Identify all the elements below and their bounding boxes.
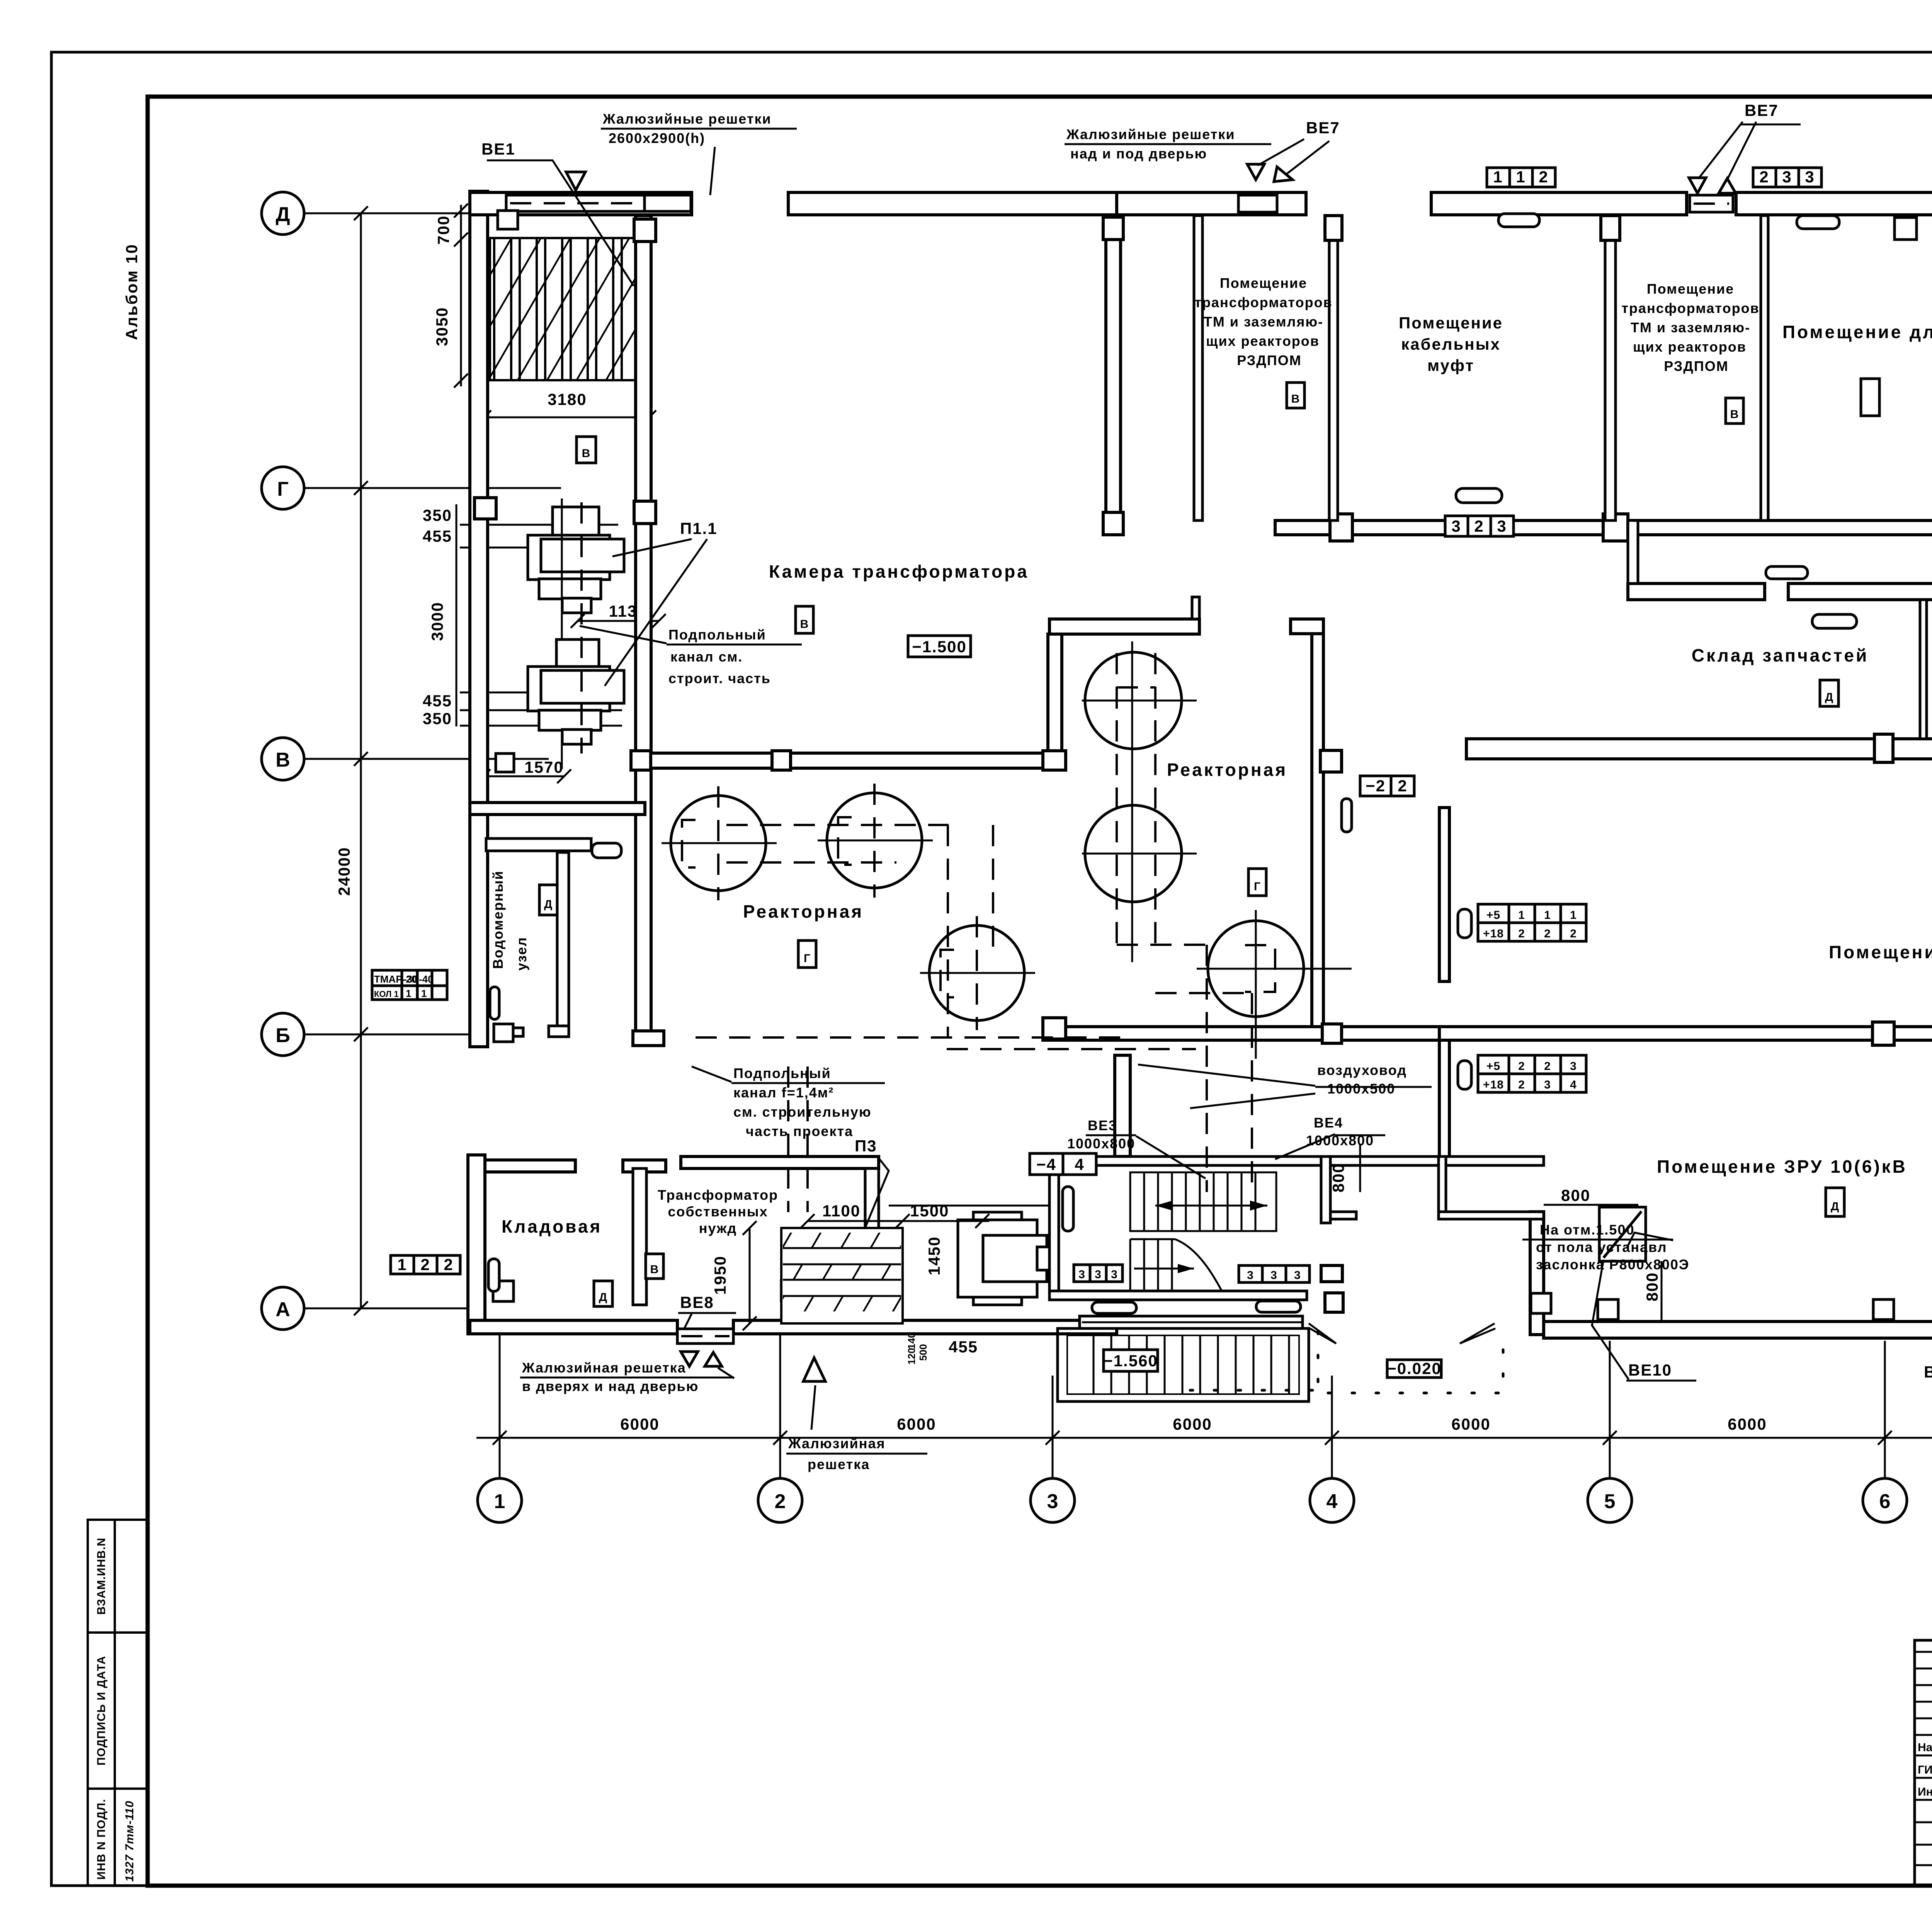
svg-text:ВЕ10: ВЕ10 [1628, 1361, 1672, 1379]
svg-text:140: 140 [906, 1332, 917, 1349]
door oval [1458, 1061, 1471, 1089]
stairwell top wall [1049, 1156, 1544, 1165]
svg-text:2: 2 [420, 1255, 430, 1274]
svg-text:1: 1 [421, 988, 427, 999]
axis circle 3 [1031, 1478, 1075, 1522]
Д box кладовая [594, 1281, 612, 1306]
room1 west wall [1194, 216, 1202, 520]
svg-text:В: В [276, 749, 290, 771]
axis circle В [262, 738, 304, 780]
stair inner wall [1321, 1156, 1330, 1223]
svg-text:от пола устанавл: от пола устанавл [1536, 1239, 1667, 1255]
svg-text:3: 3 [1805, 168, 1815, 186]
svg-text:2: 2 [1570, 927, 1577, 940]
svg-text:1: 1 [1516, 168, 1526, 186]
svg-text:6000: 6000 [1451, 1415, 1490, 1433]
level box -1.560 [1104, 1350, 1158, 1371]
svg-text:3: 3 [1270, 1269, 1277, 1282]
svg-text:+5: +5 [1486, 1060, 1500, 1073]
box 3 3 3 left [1074, 1265, 1122, 1282]
column block on corridor wall axis4 [1330, 514, 1352, 541]
BE1 nabla mark [566, 172, 585, 190]
oval under storeroom wall [1812, 614, 1857, 628]
stair hall bottom wall [1049, 1291, 1307, 1300]
Д box [1820, 680, 1838, 706]
BE1 leader [487, 160, 634, 286]
bottom wall of reactor rooms [1043, 1027, 1439, 1040]
svg-text:−0.020: −0.020 [1387, 1359, 1442, 1378]
reactor A1 [671, 796, 766, 891]
svg-text:2: 2 [1544, 1060, 1551, 1073]
svg-text:Б: Б [276, 1024, 290, 1047]
square mark axis5 [1598, 1299, 1618, 1320]
dim 3180 horizontal [484, 417, 649, 418]
north wall segment 2 [788, 192, 1117, 215]
svg-text:2: 2 [775, 1490, 786, 1513]
svg-text:3: 3 [1497, 517, 1507, 535]
column block inner wall bottom [1321, 1265, 1342, 1282]
ВЕ7 triangles #2 [1689, 178, 1706, 193]
svg-text:заслонка Р800х800Э: заслонка Р800х800Э [1536, 1257, 1689, 1272]
partition склад|кладовая [1920, 600, 1927, 739]
chamber bottom wall [1049, 619, 1199, 634]
svg-text:ВЕ3: ВЕ3 [1088, 1117, 1117, 1133]
stairwell left wall [1049, 1156, 1059, 1300]
axis stub line 2 [779, 1329, 781, 1478]
svg-text:2: 2 [1544, 927, 1551, 940]
svg-text:Камера трансформатора: Камера трансформатора [769, 561, 1029, 582]
svg-text:1100: 1100 [822, 1202, 861, 1220]
svg-text:Д: Д [544, 898, 553, 911]
door oval [1797, 216, 1839, 229]
svg-text:Инж.: Инж. [1918, 1786, 1932, 1798]
svg-text:3: 3 [1247, 1269, 1254, 1282]
svg-text:Г: Г [1254, 880, 1261, 893]
svg-text:Жалюзийная: Жалюзийная [788, 1435, 886, 1451]
кладовая north wall [485, 1160, 575, 1172]
svg-text:−2: −2 [1366, 777, 1386, 795]
В box [646, 1254, 663, 1279]
svg-text:1450: 1450 [925, 1236, 943, 1275]
svg-text:В: В [1730, 408, 1739, 421]
svg-text:ИНВ N ПОДЛ.: ИНВ N ПОДЛ. [95, 1799, 108, 1880]
svg-text:В: В [582, 447, 591, 460]
lower ЗРУ west wall [1530, 1212, 1544, 1335]
svg-text:1500: 1500 [910, 1202, 949, 1220]
svg-text:3: 3 [1095, 1268, 1102, 1281]
door oval in stair west wall [1063, 1187, 1073, 1231]
door oval [1458, 909, 1471, 938]
svg-text:2: 2 [1474, 517, 1484, 535]
svg-text:строит. часть: строит. часть [668, 670, 771, 686]
svg-text:ВЕ8: ВЕ8 [680, 1293, 714, 1311]
axis circle 1 [478, 1478, 522, 1522]
водомерный узел east wall [557, 852, 569, 1036]
transformer собст нужд symbol [958, 1220, 1037, 1297]
north wall segment 4 [1431, 192, 1687, 215]
wall V1 east of chamber [1106, 216, 1121, 535]
column block W at Г [474, 498, 496, 519]
room number box 1 1 2 [1487, 168, 1555, 187]
svg-text:2: 2 [444, 1255, 453, 1274]
corridor lower wall [1628, 583, 1765, 600]
vestibule south wall [1439, 1212, 1544, 1219]
axis stub line 6 [1884, 1341, 1886, 1478]
column block axis6 [1872, 1022, 1894, 1045]
BE1 right cap [645, 195, 691, 211]
wall E2 between grille bay and chamber [636, 216, 651, 1036]
axis А line [304, 1308, 470, 1310]
svg-text:П1.1: П1.1 [680, 519, 718, 537]
svg-text:1: 1 [1570, 909, 1577, 922]
svg-text:+18: +18 [1483, 1078, 1504, 1091]
dim 1570 [483, 776, 564, 777]
svg-text:455: 455 [423, 527, 452, 545]
svg-text:1570: 1570 [524, 758, 563, 776]
ВЕ8 louvre [677, 1329, 733, 1344]
svg-text:-30: -30 [403, 973, 418, 985]
svg-text:кабельных: кабельных [1401, 335, 1501, 353]
svg-text:Помещение: Помещение [1399, 314, 1503, 332]
svg-text:Д: Д [276, 203, 290, 226]
svg-text:узел: узел [514, 937, 529, 971]
vertical dimension line 24000 [360, 213, 362, 1308]
svg-text:Кладовая: Кладовая [502, 1216, 602, 1236]
tick marks on bottom dim line [493, 1431, 507, 1445]
svg-text:2: 2 [1759, 168, 1769, 186]
svg-text:−1.560: −1.560 [1103, 1352, 1158, 1370]
door oval [1498, 214, 1539, 227]
svg-text:Г: Г [277, 478, 288, 500]
axis Г line [304, 487, 561, 489]
svg-text:Помещение ЗРУ 10(6)кВ: Помещение ЗРУ 10(6)кВ [1829, 942, 1932, 962]
table +5/+18 upper [1478, 904, 1586, 941]
В box [1287, 383, 1304, 408]
column block east wall bottom [1322, 1024, 1342, 1043]
east wall top hook [1291, 619, 1323, 634]
svg-text:+5: +5 [1486, 909, 1500, 922]
svg-text:3: 3 [1570, 1060, 1577, 1073]
axis circle Б [262, 1013, 304, 1056]
column block on В wall mid [772, 751, 791, 770]
big arrow to П3 [803, 1358, 825, 1381]
small stub above chamber bottom wall [1192, 597, 1199, 619]
svg-text:часть проекта: часть проекта [746, 1123, 853, 1139]
supply unit П1.1 lower [556, 639, 599, 668]
svg-text:РЗДПОМ: РЗДПОМ [1664, 358, 1729, 374]
svg-text:4: 4 [1570, 1078, 1577, 1091]
upper ЗРУ north wall [1466, 739, 1932, 759]
ТМАР table [372, 970, 447, 1000]
dashed bus lines left reactor room [726, 824, 949, 826]
door oval below hall right [1256, 1301, 1301, 1312]
axis circle 4 [1310, 1478, 1354, 1522]
svg-text:ПОДПИСЬ И ДАТА: ПОДПИСЬ И ДАТА [95, 1656, 108, 1765]
supply unit П1.1 upper [553, 507, 599, 536]
svg-text:в дверях и над дверью: в дверях и над дверью [522, 1378, 699, 1394]
ЗРУ west wall upper [1439, 808, 1449, 981]
stair inner wall hook [1330, 1212, 1356, 1219]
door oval near box1 [1456, 488, 1502, 503]
east wall foot [549, 1026, 569, 1037]
svg-text:Реакторная: Реакторная [743, 901, 864, 922]
svg-text:3180: 3180 [548, 390, 587, 408]
svg-text:ТМ и заземляю-: ТМ и заземляю- [1631, 320, 1750, 335]
table +5/+18 lower [1478, 1055, 1586, 1092]
column block on В wall west [631, 751, 651, 770]
svg-text:Жалюзийные решетки: Жалюзийные решетки [602, 111, 772, 127]
собст нужд east wall [865, 1168, 879, 1230]
louvre in wall near axis 3 [1238, 195, 1277, 212]
svg-text:В1: В1 [1924, 1363, 1932, 1381]
wall V2 [1048, 634, 1062, 768]
left rows [1915, 1651, 1932, 1653]
louvre BE1 [506, 195, 645, 211]
reactor C1 [1085, 652, 1182, 749]
svg-text:канал f=1,4м²: канал f=1,4м² [733, 1085, 834, 1100]
svg-text:КОЛ 1: КОЛ 1 [374, 989, 399, 999]
В box in bay [577, 437, 596, 463]
ВЕ7 triangles #1 [1247, 164, 1264, 180]
svg-text:воздуховод: воздуховод [1317, 1062, 1407, 1078]
svg-text:3: 3 [1294, 1269, 1301, 1282]
svg-text:Склад запчастей: Склад запчастей [1692, 645, 1869, 665]
svg-text:3: 3 [1782, 168, 1792, 186]
dim 700 vertical top-left [460, 205, 462, 386]
Д door box водомерный [539, 885, 557, 915]
svg-text:2: 2 [1518, 1078, 1525, 1091]
заслонка diagonal symbol [1599, 1207, 1646, 1261]
axis circle 2 [758, 1478, 802, 1522]
west exterior wall lower [468, 1155, 485, 1334]
axis circle Д [262, 192, 304, 235]
svg-text:350: 350 [423, 506, 452, 524]
svg-text:ВЗАМ.ИНВ.N: ВЗАМ.ИНВ.N [95, 1537, 108, 1615]
svg-text:щих реакторов: щих реакторов [1206, 333, 1320, 349]
door oval corridor [1766, 566, 1808, 579]
column block V1 bottom [1103, 512, 1123, 535]
unit centerline dashed [580, 502, 583, 753]
svg-text:Альбом 10: Альбом 10 [122, 243, 141, 340]
vertical rect symbol in ОВБ room [1861, 379, 1879, 416]
vestibule east wall upper [1439, 1040, 1449, 1160]
Г box left [798, 940, 816, 968]
small tap symbol [494, 1024, 513, 1042]
door oval below hall left [1092, 1302, 1136, 1313]
svg-text:Помещение: Помещение [1647, 281, 1734, 297]
Д box [1826, 1188, 1844, 1216]
axis Д line [304, 213, 506, 214]
svg-text:6: 6 [1879, 1490, 1891, 1513]
svg-text:1327 7тм-110: 1327 7тм-110 [123, 1801, 136, 1882]
svg-text:П3: П3 [855, 1137, 877, 1155]
svg-text:ГИП: ГИП [1918, 1764, 1932, 1776]
square mark near ЗРУ west wall [1531, 1293, 1551, 1313]
svg-text:800: 800 [1643, 1272, 1661, 1301]
column block corridor wall [1603, 514, 1628, 541]
partition кладовая [633, 1168, 646, 1305]
svg-text:-40: -40 [419, 973, 434, 985]
собст нужд north wall [681, 1156, 879, 1168]
column block on В wall east [1043, 751, 1066, 770]
svg-text:щих реакторов: щих реакторов [1633, 339, 1747, 355]
axis circle 6 [1863, 1478, 1907, 1522]
north wall segment 5 [1736, 192, 1932, 215]
svg-text:Г: Г [804, 952, 811, 965]
svg-text:350: 350 [423, 709, 452, 728]
partition room3|room4 [1761, 216, 1768, 520]
svg-text:А: А [276, 1298, 290, 1321]
svg-text:2600х2900(h): 2600х2900(h) [609, 130, 705, 146]
svg-text:Подпольный: Подпольный [668, 627, 766, 643]
stair rail arrow [1155, 1205, 1267, 1207]
svg-text:2: 2 [1518, 1060, 1525, 1073]
svg-text:Трансформатор: Трансформатор [658, 1187, 778, 1203]
upper ЗРУ bottom wall [1439, 1027, 1932, 1040]
axis circle 5 [1588, 1478, 1632, 1522]
column block E2 top [634, 219, 656, 241]
ВЕ8 triangles [681, 1352, 698, 1366]
upper stair flight [1130, 1172, 1276, 1231]
axis circle А [262, 1287, 304, 1330]
svg-text:Жалюзийная решетка: Жалюзийная решетка [522, 1360, 686, 1376]
П3 hatched grille [781, 1228, 903, 1323]
partition block top [1601, 216, 1620, 240]
svg-text:500: 500 [917, 1344, 929, 1361]
svg-text:6000: 6000 [1728, 1415, 1767, 1433]
axis stub line 3 [1052, 1376, 1054, 1478]
small square mark near 1570 [496, 753, 514, 772]
svg-text:5: 5 [1604, 1490, 1616, 1513]
svg-text:Реакторная: Реакторная [1167, 760, 1287, 780]
room number box 3 2 3 #1 [1445, 516, 1514, 536]
svg-text:700: 700 [434, 215, 452, 245]
south wall right part [1544, 1321, 1932, 1338]
svg-text:455: 455 [423, 692, 452, 710]
entrance door swings [1309, 1323, 1336, 1344]
svg-text:800: 800 [1561, 1186, 1590, 1204]
level box -1.500 [908, 636, 971, 657]
Г box right [1248, 869, 1266, 896]
column block axis2 [781, 1281, 802, 1301]
north wall bay 1-2 [470, 192, 692, 215]
svg-text:24000: 24000 [335, 847, 353, 896]
svg-text:Водомерный: Водомерный [490, 870, 506, 969]
svg-text:ВЕ7: ВЕ7 [1745, 101, 1779, 119]
svg-text:решетка: решетка [808, 1456, 870, 1472]
left stamp table [88, 1520, 147, 1886]
svg-text:1: 1 [406, 988, 411, 999]
svg-text:120: 120 [906, 1348, 917, 1364]
svg-text:3050: 3050 [433, 307, 451, 346]
axis stub line 4 [1331, 1376, 1333, 1478]
room number box 1 2 2 [391, 1255, 460, 1274]
partition room2|room3 [1605, 216, 1616, 520]
main title block outline [1915, 1640, 1932, 1886]
svg-text:Нач.отд: Нач.отд [1918, 1741, 1932, 1754]
svg-text:1000х500: 1000х500 [1327, 1081, 1395, 1097]
oval on east wall [1342, 799, 1352, 832]
E2 bottom foot [633, 1031, 664, 1046]
box -4 4 [1030, 1153, 1096, 1175]
svg-text:муфт: муфт [1427, 356, 1475, 374]
svg-text:На отм.1.500: На отм.1.500 [1540, 1222, 1634, 1238]
svg-text:3: 3 [1111, 1268, 1118, 1281]
corridor upper wall mid section [1275, 520, 1932, 535]
svg-text:Помещение для ОВБ: Помещение для ОВБ [1782, 322, 1932, 342]
svg-text:3000: 3000 [428, 602, 446, 641]
box 3 3 3 right [1239, 1265, 1310, 1282]
ВЕ7 louvre #2 [1690, 195, 1733, 212]
svg-text:455: 455 [949, 1338, 978, 1356]
axis Б line [304, 1034, 470, 1036]
entrance outside stair [1058, 1328, 1309, 1401]
svg-text:трансформаторов: трансформаторов [1621, 300, 1759, 316]
svg-text:4: 4 [1327, 1490, 1338, 1513]
svg-text:800: 800 [1329, 1163, 1347, 1192]
svg-text:Жалюзийные решетки: Жалюзийные решетки [1066, 126, 1235, 142]
dims around transformer [889, 1205, 1059, 1207]
водомерный узел north wall [486, 838, 591, 851]
porch top wall [1080, 1316, 1303, 1328]
svg-text:Д: Д [1831, 1200, 1839, 1213]
corridor lower wall 2 [1788, 583, 1932, 600]
svg-text:−4: −4 [1036, 1155, 1056, 1173]
svg-text:1: 1 [397, 1255, 407, 1274]
svg-text:Помещение: Помещение [1220, 275, 1307, 291]
door oval водомерный [592, 843, 621, 858]
svg-text:+18: +18 [1483, 927, 1504, 940]
reactor C2 [1085, 805, 1182, 902]
svg-text:ВЕ4: ВЕ4 [1314, 1115, 1343, 1131]
В box [796, 606, 813, 633]
svg-text:В: В [650, 1263, 659, 1276]
reactor A2 [827, 793, 922, 888]
А-row wall segment 1 [470, 1320, 677, 1334]
svg-text:2: 2 [1518, 927, 1525, 940]
vestibule east wall [1439, 1156, 1446, 1219]
square mark on wall room4 [1895, 218, 1917, 240]
svg-text:см. строительную: см. строительную [733, 1104, 872, 1120]
В box [1726, 398, 1743, 423]
svg-text:В: В [800, 618, 809, 631]
east wall of reactor room [1312, 619, 1323, 1029]
svg-text:Подпольный: Подпольный [733, 1065, 831, 1081]
level box -0.020 [1387, 1360, 1441, 1378]
svg-text:канал см.: канал см. [670, 649, 743, 665]
svg-text:Д: Д [1825, 691, 1833, 704]
column block on east wall at В [1320, 750, 1342, 772]
svg-text:1: 1 [1518, 909, 1525, 922]
column block V1 top [1103, 217, 1123, 240]
reactor A3 [929, 925, 1024, 1020]
oval on west wall [490, 987, 499, 1019]
svg-text:ВЕ7: ВЕ7 [1306, 119, 1340, 137]
svg-text:ВЕ1: ВЕ1 [481, 140, 515, 158]
duct shaft wall above stairs [1115, 1055, 1130, 1156]
reactor C3 [1208, 921, 1304, 1017]
svg-text:3: 3 [1078, 1268, 1085, 1281]
axis stub line 1 [499, 1329, 501, 1478]
svg-text:3: 3 [1047, 1490, 1058, 1513]
svg-text:6000: 6000 [620, 1415, 659, 1433]
partition room1|room2 [1329, 216, 1338, 520]
supply grille П1 hatched area [490, 238, 643, 380]
lower stair flight [1129, 1239, 1131, 1291]
svg-text:6000: 6000 [897, 1415, 936, 1433]
bottom dimension line [476, 1437, 1932, 1439]
axis В line [304, 758, 549, 760]
